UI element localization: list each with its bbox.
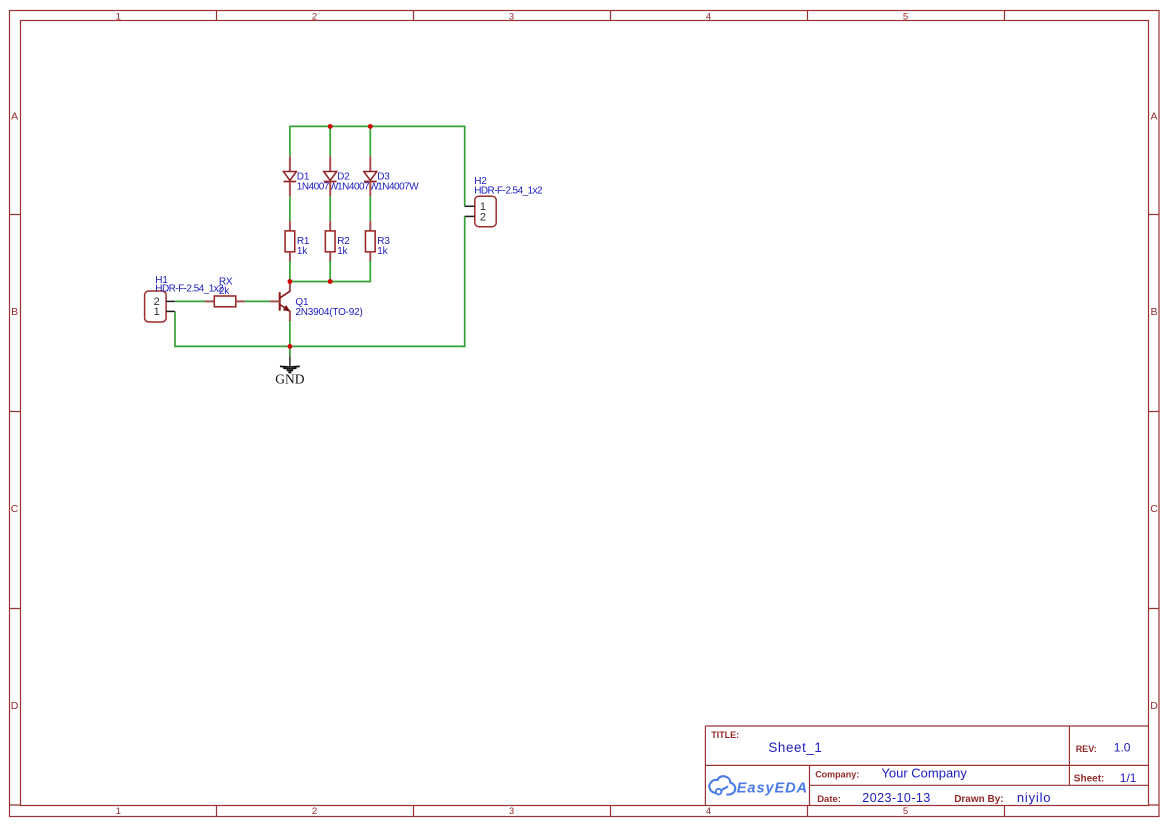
wire D2 top <box>329 126 331 156</box>
header H1 <box>145 291 175 322</box>
diode D3 <box>364 156 377 196</box>
EasyEDA logo <box>709 776 735 794</box>
svg-text:1N4007W: 1N4007W <box>297 181 339 192</box>
wire D3 top <box>369 126 371 156</box>
diode D2 <box>324 156 337 196</box>
svg-text:A: A <box>1150 110 1157 122</box>
svg-text:2023-10-13: 2023-10-13 <box>862 791 930 805</box>
svg-text:1.0: 1.0 <box>1114 741 1131 755</box>
svg-text:1: 1 <box>116 806 121 817</box>
wire D1 top <box>289 126 291 157</box>
svg-text:3: 3 <box>509 11 514 22</box>
resistor R1 <box>285 221 295 261</box>
svg-text:2: 2 <box>312 806 317 817</box>
svg-text:Sheet:: Sheet: <box>1074 773 1105 784</box>
svg-text:Your Company: Your Company <box>881 766 967 781</box>
svg-text:REV:: REV: <box>1076 744 1097 754</box>
svg-text:EasyEDA: EasyEDA <box>737 781 808 797</box>
svg-text:5: 5 <box>903 806 908 817</box>
svg-text:1k: 1k <box>297 246 308 257</box>
svg-text:1/1: 1/1 <box>1120 771 1137 785</box>
resistor R2 <box>325 221 335 261</box>
svg-text:4: 4 <box>706 11 711 22</box>
wire H2 right rail upper <box>464 126 466 207</box>
svg-text:1N4007W: 1N4007W <box>377 181 419 192</box>
svg-text:Date:: Date: <box>817 794 841 805</box>
wire GND stub <box>289 346 291 356</box>
svg-text:5: 5 <box>903 11 908 22</box>
svg-text:2N3904(TO-92): 2N3904(TO-92) <box>295 307 362 318</box>
svg-text:C: C <box>1150 503 1158 515</box>
wire H1 pin1 vertical <box>174 311 176 347</box>
wire H1 to RX <box>175 300 205 302</box>
svg-text:2: 2 <box>312 11 317 22</box>
svg-text:A: A <box>11 110 18 122</box>
wire emitter down <box>289 321 291 346</box>
wire H2 right rail lower <box>464 216 466 347</box>
junction top rail D2 <box>328 124 333 129</box>
svg-text:1: 1 <box>154 306 160 318</box>
svg-text:HDR-F-2.54_1x2: HDR-F-2.54_1x2 <box>155 284 224 295</box>
svg-text:1k: 1k <box>377 246 388 257</box>
svg-text:1N4007W: 1N4007W <box>337 181 379 192</box>
svg-text:1k: 1k <box>337 246 348 257</box>
svg-text:1: 1 <box>116 11 121 22</box>
wire R3 bottom <box>369 261 371 282</box>
svg-text:3: 3 <box>509 806 514 817</box>
wire R1 bottom <box>289 261 291 282</box>
wire collector rail <box>290 281 370 283</box>
svg-text:Drawn By:: Drawn By: <box>954 794 1003 805</box>
svg-text:D: D <box>1150 700 1158 712</box>
resistor R3 <box>365 221 375 261</box>
junction collector rail R2 <box>328 279 333 284</box>
svg-text:B: B <box>11 306 18 318</box>
wire RX to Q1 base <box>245 300 270 302</box>
resistor RX <box>205 296 245 307</box>
wire D1-R1 <box>289 196 291 221</box>
svg-text:Sheet_1: Sheet_1 <box>768 740 822 755</box>
svg-text:C: C <box>11 503 19 515</box>
svg-text:D: D <box>11 700 19 712</box>
wire D3-R3 <box>369 196 371 221</box>
wire bottom rail <box>175 345 465 347</box>
svg-text:TITLE:: TITLE: <box>711 730 739 740</box>
junction bottom rail GND <box>288 344 293 349</box>
wire D2-R2 <box>329 196 331 221</box>
title block <box>705 726 1148 806</box>
svg-text:niyilo: niyilo <box>1017 790 1051 805</box>
ground <box>275 356 304 386</box>
svg-text:HDR-F-2.54_1x2: HDR-F-2.54_1x2 <box>474 186 543 197</box>
header H2 <box>465 196 496 227</box>
diode D1 <box>283 156 296 196</box>
svg-text:Company:: Company: <box>815 770 859 780</box>
junction collector rail R1 <box>288 279 293 284</box>
transistor Q1 <box>270 282 290 322</box>
wire top rail <box>290 125 465 127</box>
svg-text:GND: GND <box>275 372 304 387</box>
svg-text:4: 4 <box>706 806 711 817</box>
svg-text:B: B <box>1150 306 1157 318</box>
junction top rail D3 <box>368 124 373 129</box>
svg-text:2: 2 <box>480 211 486 223</box>
wire R2 bottom <box>329 261 331 282</box>
